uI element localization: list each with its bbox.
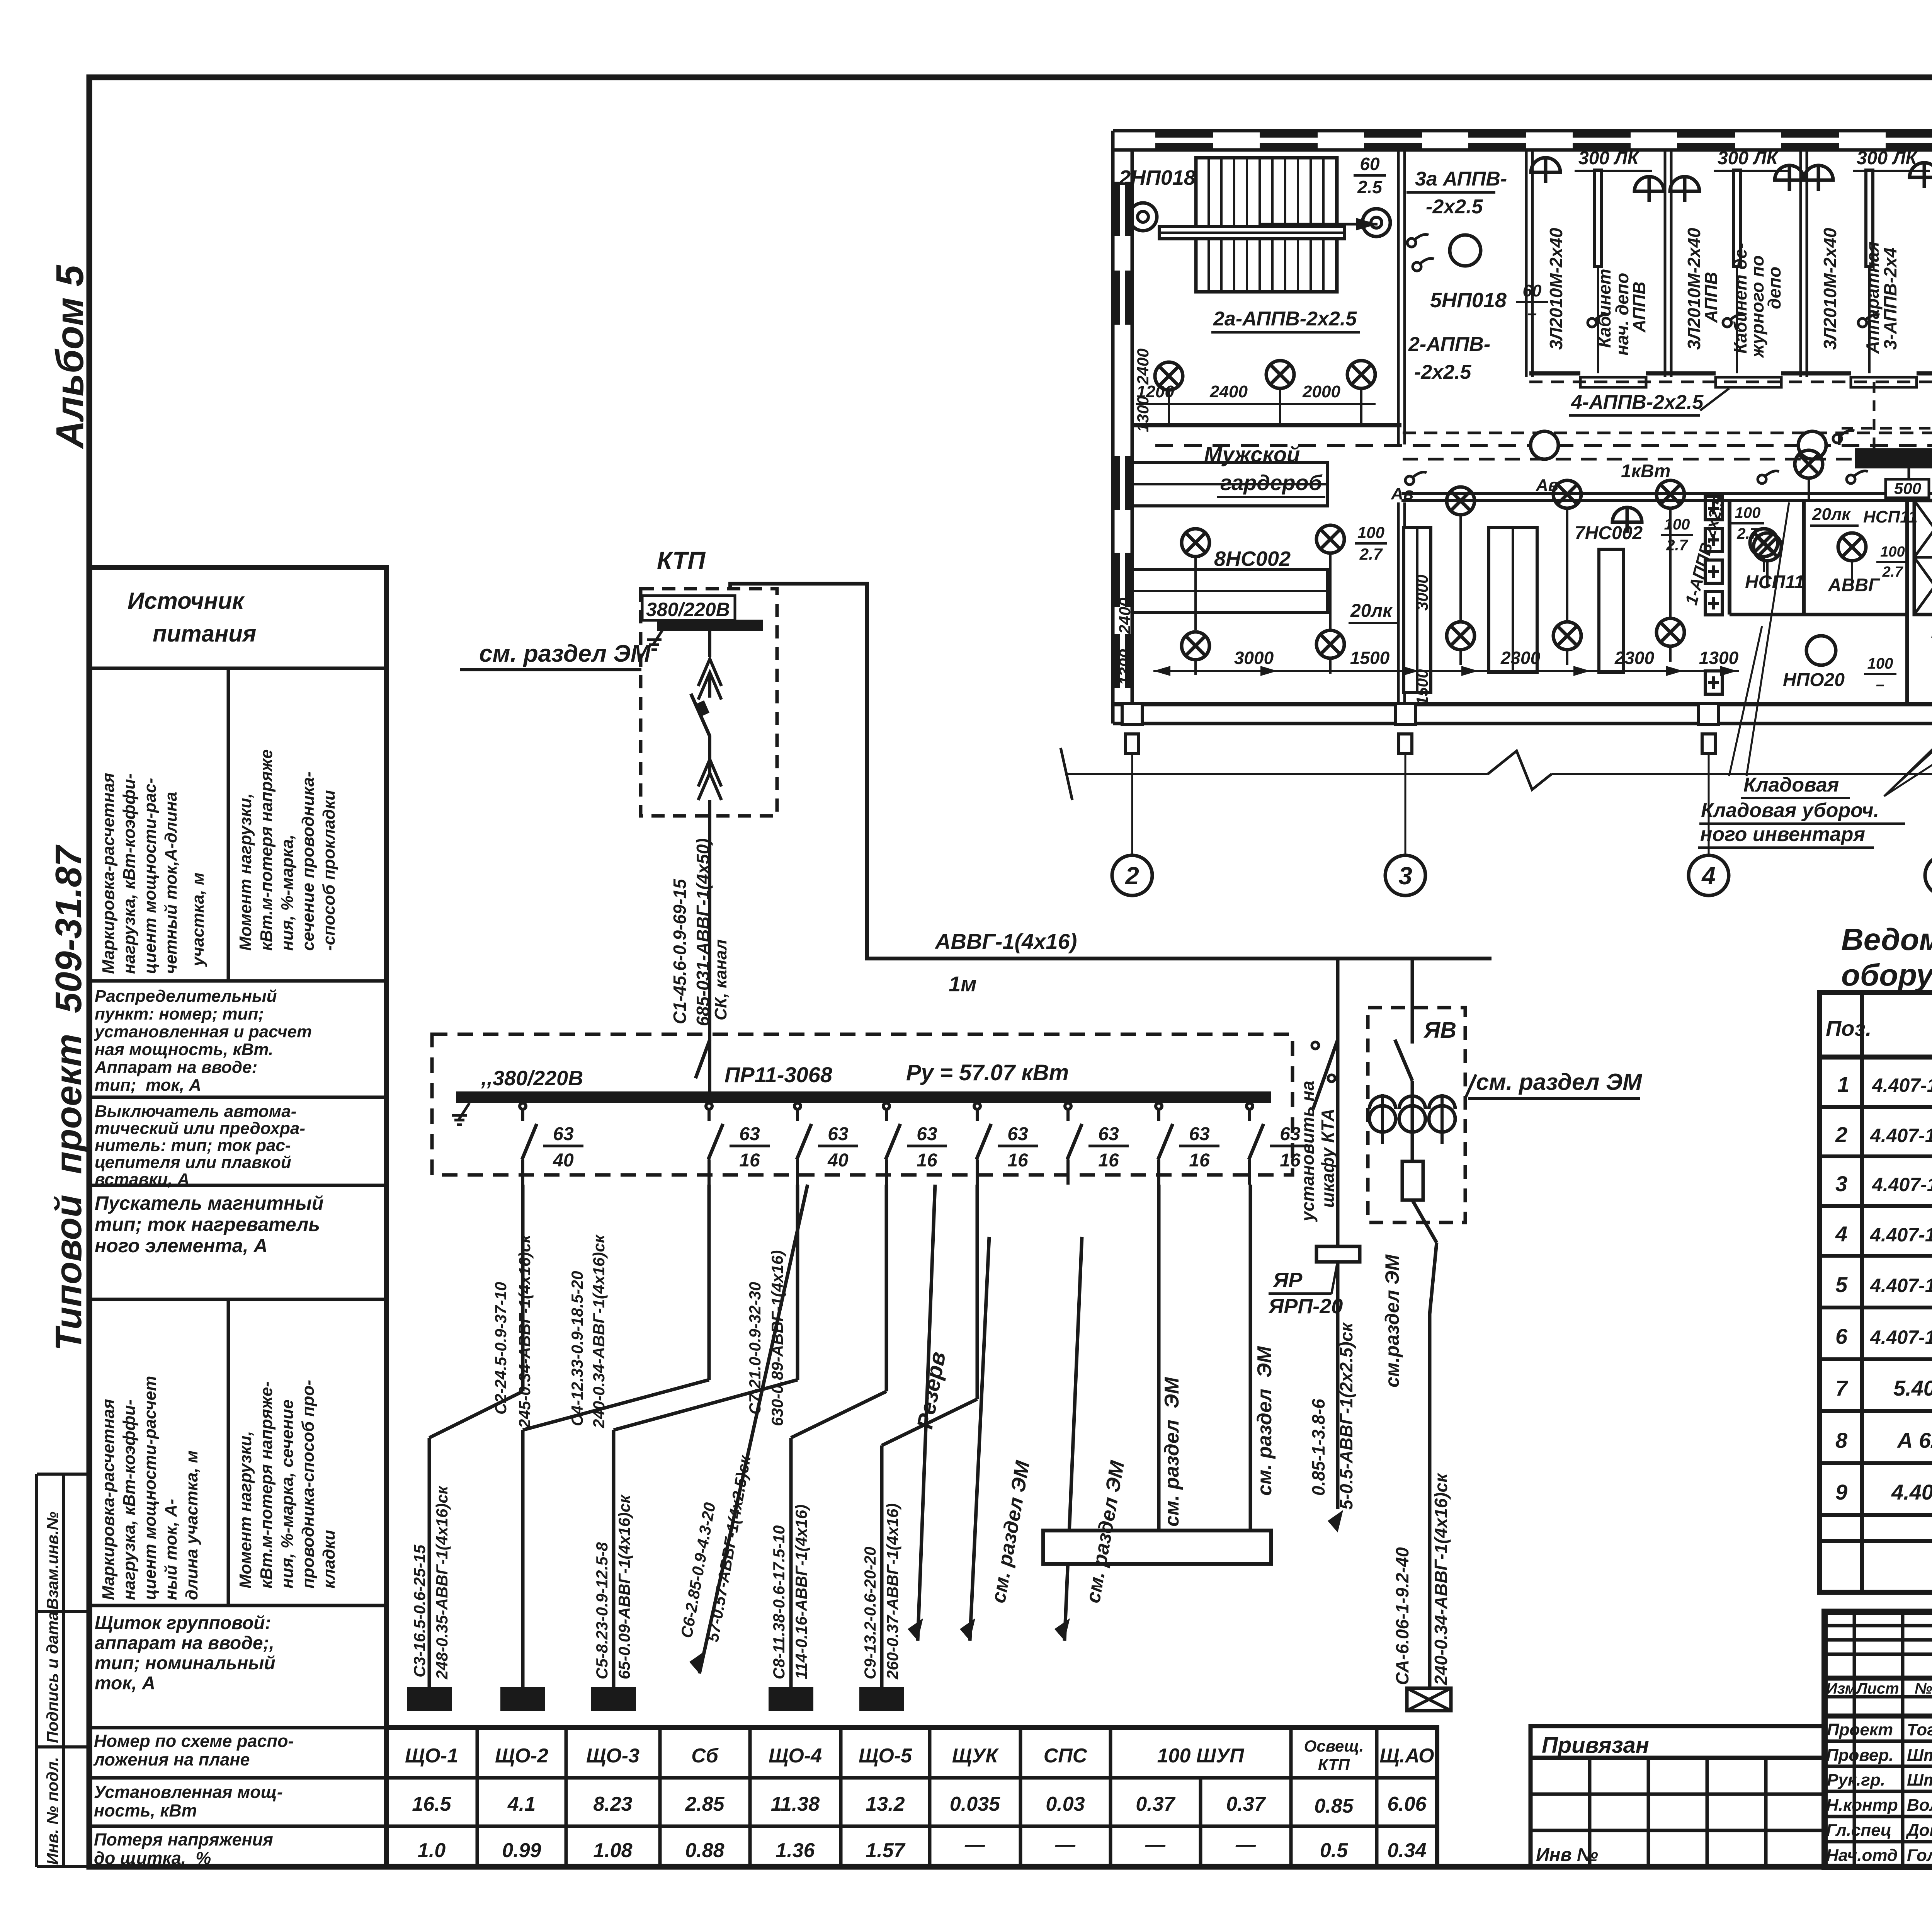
svg-text:Ав: Ав <box>1536 476 1558 495</box>
svg-text:Взам.инв.№: Взам.инв.№ <box>43 1512 61 1610</box>
group panel terminal (black box) x=1353 <box>500 1687 545 1711</box>
ground symbol <box>653 629 663 645</box>
feeder junction circle <box>1798 431 1826 459</box>
svg-text:13.2: 13.2 <box>866 1793 905 1815</box>
svg-text:Гл.спец: Гл.спец <box>1826 1821 1891 1840</box>
half lamp at 4000,446 <box>1531 158 1560 183</box>
svg-text:7НС002: 7НС002 <box>1575 523 1643 543</box>
svg-text:2300: 2300 <box>1500 648 1541 668</box>
svg-text:Нач.отд: Нач.отд <box>1826 1846 1898 1865</box>
svg-text:2.85: 2.85 <box>685 1793 724 1815</box>
svg-text:,,380/220В: ,,380/220В <box>481 1067 583 1090</box>
half lamp at 4360,495 <box>1670 177 1699 202</box>
svg-text:3: 3 <box>1835 1171 1847 1196</box>
feeder arrow EM2 <box>1065 1237 1082 1641</box>
svg-text:С5-8.23-0.9-12.5-8: С5-8.23-0.9-12.5-8 <box>593 1542 611 1679</box>
svg-text:Альбом 5: Альбом 5 <box>48 264 92 449</box>
svg-text:НПО20: НПО20 <box>1783 670 1845 690</box>
breaker 63/16 at x=2529 <box>974 1103 980 1109</box>
svg-text:9: 9 <box>1835 1480 1847 1504</box>
lamp at 4056,1279 <box>1553 480 1581 508</box>
svg-text:оборудования на плане располож: оборудования на плане расположения. <box>1841 958 1932 992</box>
svg-text:65-0.09-АВВГ-1(4х16)ск: 65-0.09-АВВГ-1(4х16)ск <box>615 1495 633 1679</box>
svg-text:4.1: 4.1 <box>507 1793 536 1815</box>
svg-text:20лк: 20лк <box>1812 505 1851 524</box>
svg-text:3: 3 <box>1398 862 1412 890</box>
svg-text:СК, канал: СК, канал <box>711 939 730 1020</box>
dimension line garderob <box>1153 670 1739 672</box>
svg-text:1300: 1300 <box>1699 648 1739 668</box>
svg-text:63: 63 <box>1189 1124 1210 1144</box>
svg-text:2НП018: 2НП018 <box>1119 166 1196 189</box>
breaker drops on main bus <box>520 1103 1310 1185</box>
lamp at 3780,1296 <box>1447 487 1475 515</box>
svg-text:—: — <box>1235 1834 1256 1856</box>
svg-text:Аппаратная: Аппаратная <box>1862 242 1883 354</box>
svg-text:Подпись и дата: Подпись и дата <box>43 1612 61 1743</box>
svg-text:Сб: Сб <box>691 1745 719 1767</box>
svg-text:НСП11: НСП11 <box>1863 507 1918 526</box>
svg-text:4: 4 <box>1701 862 1716 890</box>
svg-text:2.5: 2.5 <box>1357 177 1383 197</box>
svg-text:Освещ.: Освещ. <box>1304 1737 1364 1755</box>
svg-text:3Л2010М-2х40: 3Л2010М-2х40 <box>1546 228 1566 350</box>
breaker 63/16 at x=1835 <box>706 1103 712 1109</box>
svg-text:АВВГ-1(4х16): АВВГ-1(4х16) <box>934 929 1077 953</box>
svg-text:3а АППВ-: 3а АППВ- <box>1415 168 1507 190</box>
svg-text:63: 63 <box>917 1124 937 1144</box>
svg-text:300 ЛК: 300 ЛК <box>1857 148 1918 169</box>
breaker 63/16 at x=2999 <box>1156 1103 1162 1109</box>
lines to shared panel box <box>1157 1185 1161 1531</box>
lamp at 3443,1395 <box>1316 525 1344 553</box>
lamp at 4323,1636 <box>1656 618 1684 646</box>
switch at 4120,835 <box>1588 315 1609 327</box>
380/220V label box <box>642 596 735 620</box>
svg-text:6.06: 6.06 <box>1387 1793 1427 1815</box>
svg-text:1м: 1м <box>949 972 977 996</box>
heater box at 4435,1766 <box>1705 671 1722 694</box>
svg-text:16: 16 <box>1189 1150 1210 1171</box>
svg-text:А 625: А 625 <box>1896 1428 1932 1452</box>
fluorescent fixtures 3L2010M <box>1595 170 1602 267</box>
window fills top wall <box>1155 132 1213 138</box>
svg-text:60: 60 <box>1360 154 1380 174</box>
svg-text:Провер.: Провер. <box>1826 1746 1893 1765</box>
svg-text:Волкова: Волкова <box>1907 1796 1932 1815</box>
svg-text:см. раздел ЭМ: см. раздел ЭМ <box>1253 1346 1276 1496</box>
svg-text:СПС: СПС <box>1044 1745 1088 1767</box>
svg-text:Инв №: Инв № <box>1536 1845 1598 1865</box>
switch at 3667,690 <box>1413 259 1434 271</box>
svg-text:Изм: Изм <box>1826 1680 1856 1697</box>
fuse in YAV <box>1402 1161 1423 1200</box>
office bottom wall with door gaps <box>1529 371 1932 376</box>
wire branch from breaker x=2294 to panel x=2047 <box>885 1185 888 1391</box>
svg-text:—: — <box>1055 1834 1076 1856</box>
svg-text:380/220В: 380/220В <box>646 599 730 620</box>
feeder arrow EM1 <box>970 1237 989 1641</box>
svg-text:2.7: 2.7 <box>1359 545 1383 563</box>
current transformer coils <box>1369 1106 1396 1132</box>
svg-text:Инв. № подл.: Инв. № подл. <box>43 1757 61 1865</box>
ventilation shafts (crossed boxes) <box>1914 501 1932 615</box>
branch feeders below switchboard <box>407 1185 977 1711</box>
KTP busbar <box>659 621 761 629</box>
svg-text:4.407-174(А102.41 исп.1): 4.407-174(А102.41 исп.1) <box>1870 1224 1932 1246</box>
wire branch from breaker x=2064 to panel x=1588 <box>796 1185 799 1380</box>
wire branch from breaker x=2529 to panel x=2282 <box>976 1185 979 1399</box>
bus ground <box>458 1103 469 1121</box>
svg-text:ЯВ: ЯВ <box>1423 1018 1456 1043</box>
svg-text:1кВт: 1кВт <box>1621 461 1670 482</box>
svg-text:Домбровский: Домбровский <box>1905 1821 1932 1840</box>
YARP-20 fuse circuit <box>1336 958 1340 1246</box>
svg-text:Источник: Источник <box>128 588 245 614</box>
svg-text:16: 16 <box>1098 1150 1119 1171</box>
svg-text:100: 100 <box>1880 544 1905 560</box>
shared panel (white box) <box>1043 1531 1271 1564</box>
building outer wall left <box>1111 131 1115 724</box>
svg-text:см. раздел ЭМ: см. раздел ЭМ <box>479 640 651 667</box>
svg-text:ЩО-4: ЩО-4 <box>769 1745 822 1767</box>
svg-text:–: – <box>1876 676 1884 693</box>
svg-text:СА-6.06-1-9.2-40: СА-6.06-1-9.2-40 <box>1392 1547 1412 1685</box>
half lamp at 4211,1351 <box>1612 507 1642 533</box>
lamp at 3780,1645 <box>1447 622 1475 650</box>
group panel terminal (black box) x=1588 <box>591 1687 636 1711</box>
svg-text:2: 2 <box>1835 1122 1847 1147</box>
svg-text:АППВ: АППВ <box>1701 272 1721 323</box>
KTP transformer cabinet (dashed) <box>641 546 777 1098</box>
svg-text:Голодник: Голодник <box>1907 1846 1932 1865</box>
svg-text:2400: 2400 <box>1134 349 1152 385</box>
svg-text:4.407-174(А102.58 исп.5): 4.407-174(А102.58 исп.5) <box>1872 1074 1932 1096</box>
svg-text:ного инвентаря: ного инвентаря <box>1700 823 1865 846</box>
svg-text:депо: депо <box>1764 267 1784 309</box>
svg-text:2.7: 2.7 <box>1666 537 1688 554</box>
svg-text:АППВ: АППВ <box>1629 282 1649 333</box>
svg-text:0.34: 0.34 <box>1387 1839 1426 1862</box>
svg-text:Проект: Проект <box>1827 1720 1893 1739</box>
svg-text:3000: 3000 <box>1234 648 1274 668</box>
svg-text:16: 16 <box>917 1150 937 1171</box>
disconnector chevrons <box>698 659 721 686</box>
half lamp at 4706,466 <box>1804 165 1833 191</box>
svg-text:300 ЛК: 300 ЛК <box>1718 148 1779 169</box>
bottom band partitions <box>1728 501 1731 615</box>
switch at 4560,1240 <box>1758 471 1779 484</box>
svg-text:16: 16 <box>739 1150 760 1171</box>
panel ShchO-3 (black box) <box>1855 448 1932 468</box>
svg-text:питания: питания <box>153 621 256 647</box>
svg-text:Ав: Ав <box>1391 484 1413 503</box>
wire branch from breaker x=1835 to panel x=1353 <box>707 1185 711 1380</box>
door sills <box>1580 377 1646 387</box>
blade with flag <box>691 694 710 736</box>
svg-text:№ докум: № докум <box>1915 1680 1932 1697</box>
svg-text:2.7: 2.7 <box>1882 564 1904 580</box>
svg-text:гардероб: гардероб <box>1220 470 1323 495</box>
svg-text:—: — <box>964 1834 985 1856</box>
svg-text:Тогер: Тогер <box>1907 1720 1932 1739</box>
svg-text:20лк: 20лк <box>1350 601 1393 621</box>
lamp at 4323,1279 <box>1656 480 1684 508</box>
svg-text:Н.контр: Н.контр <box>1826 1796 1898 1815</box>
heater box at 4435,1479 <box>1705 560 1722 583</box>
svg-text:Щ.АО: Щ.АО <box>1379 1745 1434 1767</box>
svg-text:2: 2 <box>1125 862 1139 890</box>
svg-text:1: 1 <box>1837 1072 1849 1096</box>
svg-text:0.5: 0.5 <box>1320 1839 1348 1862</box>
svg-text:4: 4 <box>1835 1222 1847 1246</box>
breaker 63/16 at x=3234 <box>1247 1103 1253 1109</box>
heater box at 4435,1397 <box>1705 528 1722 552</box>
svg-text:шкафу КТА: шкафу КТА <box>1318 1108 1338 1208</box>
svg-text:Мужской: Мужской <box>1204 442 1300 466</box>
feeder drop from KTP bus <box>708 629 711 657</box>
svg-text:500: 500 <box>1894 479 1921 497</box>
svg-text:0.99: 0.99 <box>502 1839 541 1862</box>
svg-text:2300: 2300 <box>1614 648 1655 668</box>
svg-text:63: 63 <box>553 1124 574 1144</box>
svg-text:40: 40 <box>827 1150 849 1171</box>
half lamp at 4268,495 <box>1634 177 1664 202</box>
svg-text:40: 40 <box>553 1150 574 1171</box>
svg-text:Ведомость узлов установки элек: Ведомость узлов установки электрического <box>1841 922 1932 957</box>
AVVG-1(4x16) feeder wire from KTP to YAV <box>730 584 1492 958</box>
svg-text:ЩО-1: ЩО-1 <box>405 1745 458 1767</box>
svg-text:4.407-233: 4.407-233 <box>1891 1480 1932 1504</box>
svg-text:248-0.35-АВВГ-1(4x16)ск: 248-0.35-АВВГ-1(4x16)ск <box>433 1485 451 1680</box>
corridor feeder (dashed) <box>1155 444 1932 447</box>
svg-text:260-0.37-АВВГ-1(4х16): 260-0.37-АВВГ-1(4х16) <box>883 1503 901 1680</box>
svg-text:63: 63 <box>1098 1124 1119 1144</box>
svg-text:Штопельман: Штопельман <box>1907 1771 1932 1789</box>
svg-text:0.85: 0.85 <box>1314 1795 1354 1817</box>
stairwell <box>1196 158 1337 292</box>
main busbar PR11-3068 <box>456 1091 1271 1103</box>
wire branch from breaker x=1353 to panel x=1111 <box>521 1185 525 1391</box>
breaker 63/40 at x=1353 <box>520 1103 526 1109</box>
half lamp at 4980,459 <box>1910 163 1932 188</box>
garderob top wall <box>1132 423 1401 427</box>
svg-text:Лист: Лист <box>1855 1680 1899 1697</box>
svg-text:ЩУК: ЩУК <box>952 1745 999 1767</box>
fuse YARP-20 (white rect) <box>1316 1246 1360 1262</box>
svg-text:см. раздел ЭМ: см. раздел ЭМ <box>1476 1069 1643 1095</box>
svg-text:1300: 1300 <box>1116 649 1134 685</box>
svg-text:АВВГ: АВВГ <box>1828 575 1881 596</box>
svg-text:4-АППВ-2х2.5: 4-АППВ-2х2.5 <box>1571 391 1704 414</box>
axis 3 marker <box>1395 703 1415 724</box>
lamp NPO20 circles <box>1450 235 1481 266</box>
YAV box (dashed) <box>1368 1008 1465 1222</box>
svg-text:1.0: 1.0 <box>418 1839 446 1862</box>
incoming switch blade at box top <box>696 1040 710 1078</box>
consumer terminal (bowtie) <box>1407 1688 1451 1711</box>
office partitions <box>1526 151 1932 377</box>
lamp at 4565,1404 <box>1750 529 1778 557</box>
wall lamp NBO at 2958,561 <box>1129 203 1157 231</box>
svg-text:2.7: 2.7 <box>1736 525 1759 542</box>
svg-text:-2х2.5: -2х2.5 <box>1426 196 1483 218</box>
ground line <box>1067 773 1488 775</box>
svg-text:0.03: 0.03 <box>1046 1793 1085 1815</box>
feeder junction circle <box>1531 431 1558 459</box>
svg-text:2а-АППВ-2х2.5: 2а-АППВ-2х2.5 <box>1213 308 1357 330</box>
feeder arrow rezerv <box>918 1185 935 1641</box>
svg-text:3000: 3000 <box>1413 575 1431 611</box>
svg-text:4.407-174(А102.68 исп.1): 4.407-174(А102.68 исп.1) <box>1870 1326 1932 1348</box>
svg-text:240-0.34-АВВГ-1(4х16)ск: 240-0.34-АВВГ-1(4х16)ск <box>1431 1473 1451 1685</box>
corridor bottom wall <box>1401 492 1932 495</box>
dimension line top-left room <box>1136 403 1376 405</box>
half lamp at 4631,466 <box>1775 165 1804 191</box>
partition garderob right <box>1398 151 1405 444</box>
lamp at 4793,1415 <box>1838 533 1866 561</box>
svg-text:ЩО-3: ЩО-3 <box>586 1745 639 1767</box>
wardrobe benches <box>1132 463 1327 506</box>
svg-text:5НП018: 5НП018 <box>1430 289 1507 312</box>
lamp at 3094,1671 <box>1182 632 1209 660</box>
svg-text:С2-24.5-0.9-37-10: С2-24.5-0.9-37-10 <box>492 1282 510 1415</box>
svg-text:С1-45.6-0.9-69-15: С1-45.6-0.9-69-15 <box>670 878 690 1024</box>
group panel terminal (black box) x=2047 <box>769 1687 813 1711</box>
svg-text:см.раздел ЭМ: см.раздел ЭМ <box>1381 1254 1403 1388</box>
svg-text:16.5: 16.5 <box>412 1793 451 1815</box>
svg-text:1.36: 1.36 <box>776 1839 815 1862</box>
wall lamp NBO at 3562,576 <box>1362 209 1390 237</box>
building outer wall top <box>1113 129 1932 133</box>
group panel terminal (black box) x=2282 <box>859 1687 904 1711</box>
lamp at 4574,1415 <box>1753 533 1781 561</box>
svg-text:0.37: 0.37 <box>1226 1793 1266 1815</box>
svg-text:1500: 1500 <box>1350 648 1390 668</box>
svg-text:С8-11.38-0.6-17.5-10: С8-11.38-0.6-17.5-10 <box>770 1525 788 1679</box>
svg-text:см. раздел ЭМ: см. раздел ЭМ <box>1161 1377 1183 1527</box>
svg-text:Поз.: Поз. <box>1826 1016 1872 1040</box>
lamp at 4056,1645 <box>1553 622 1581 650</box>
svg-text:С9-13.2-0.6-20-20: С9-13.2-0.6-20-20 <box>861 1547 879 1679</box>
svg-text:–: – <box>1527 304 1537 323</box>
lamp at 3523,969 <box>1347 361 1375 388</box>
svg-text:100 ШУП: 100 ШУП <box>1157 1745 1245 1767</box>
svg-text:100: 100 <box>1735 504 1761 521</box>
axis 4 marker <box>1699 703 1719 724</box>
svg-text:8НС002: 8НС002 <box>1214 547 1291 570</box>
lamp at 3443,1667 <box>1316 630 1344 658</box>
svg-text:0.88: 0.88 <box>685 1839 724 1862</box>
svg-text:5.407-19: 5.407-19 <box>1893 1376 1932 1400</box>
heater box at 4435,1315 <box>1705 497 1722 520</box>
svg-text:5-0.5-АВВГ-1(2х2.5)ск: 5-0.5-АВВГ-1(2х2.5)ск <box>1336 1322 1356 1510</box>
svg-text:С3-16.5-0.6-25-15: С3-16.5-0.6-25-15 <box>410 1544 429 1677</box>
svg-text:63: 63 <box>828 1124 849 1144</box>
lamp at 3025,973 <box>1155 362 1183 390</box>
svg-text:0.37: 0.37 <box>1136 1793 1175 1815</box>
breaker 63/16 at x=2764 <box>1065 1103 1071 1109</box>
svg-text:8: 8 <box>1835 1428 1848 1452</box>
svg-text:60: 60 <box>1523 281 1542 300</box>
svg-text:63: 63 <box>1007 1124 1028 1144</box>
breaker 63/40 at x=2064 <box>794 1103 801 1109</box>
svg-text:Рук.гр.: Рук.гр. <box>1827 1771 1885 1789</box>
svg-text:11.38: 11.38 <box>771 1793 820 1815</box>
heater box at 4435,1561 <box>1705 592 1722 615</box>
axis 2 marker <box>1122 703 1142 724</box>
building outer wall bottom <box>1113 702 1932 707</box>
svg-text:С4-12.33-0.9-18.5-20: С4-12.33-0.9-18.5-20 <box>568 1271 586 1426</box>
switch at 4820,835 <box>1858 315 1879 327</box>
svg-text:Кладовая убороч.: Кладовая убороч. <box>1701 799 1879 822</box>
svg-text:Штопельман: Штопельман <box>1907 1746 1932 1765</box>
svg-text:2400: 2400 <box>1116 598 1134 634</box>
svg-text:ПР11-3068: ПР11-3068 <box>724 1062 833 1087</box>
svg-text:Кладовая: Кладовая <box>1743 774 1839 796</box>
svg-text:ЩО-5: ЩО-5 <box>859 1745 912 1767</box>
svg-text:ЯРП-20: ЯРП-20 <box>1268 1295 1343 1318</box>
svg-text:0.035: 0.035 <box>950 1793 1000 1815</box>
svg-text:300 ЛК: 300 ЛК <box>1578 148 1640 169</box>
switch at 3653,628 <box>1407 235 1429 247</box>
switch at 3648,1243 <box>1405 472 1427 485</box>
svg-text:3-АППВ-2х4: 3-АППВ-2х4 <box>1880 248 1900 350</box>
svg-text:0.85-1-3.8-6: 0.85-1-3.8-6 <box>1308 1399 1328 1496</box>
svg-text:2-АППВ-: 2-АППВ- <box>1408 333 1490 356</box>
svg-text:1.57: 1.57 <box>866 1839 905 1862</box>
svg-text:100: 100 <box>1664 516 1690 533</box>
svg-text:114-0.16-АВВГ-1(4x16): 114-0.16-АВВГ-1(4x16) <box>792 1505 810 1679</box>
inv strip boxes <box>35 1474 38 1867</box>
lamp at 3094,1404 <box>1182 529 1209 557</box>
svg-text:Ру = 57.07 кВт: Ру = 57.07 кВт <box>906 1060 1069 1085</box>
svg-text:4.407-174(А102.35): 4.407-174(А102.35) <box>1872 1174 1932 1195</box>
svg-text:4.407-174(А102.48 исп.1): 4.407-174(А102.48 исп.1) <box>1870 1275 1932 1296</box>
svg-text:8.23: 8.23 <box>593 1793 632 1815</box>
svg-text:240-0.34-АВВГ-1(4х16)ск: 240-0.34-АВВГ-1(4х16)ск <box>590 1234 608 1428</box>
svg-text:7: 7 <box>1835 1376 1849 1400</box>
switch at 4755,1135 <box>1833 431 1854 443</box>
breaker 63/16 at x=2294 <box>883 1103 889 1109</box>
svg-text:2400: 2400 <box>1209 382 1248 401</box>
svg-text:3Л2010М-2х40: 3Л2010М-2х40 <box>1820 228 1840 350</box>
svg-text:100: 100 <box>1867 655 1893 672</box>
svg-text:63: 63 <box>739 1124 760 1144</box>
svg-text:ЩО-2: ЩО-2 <box>495 1745 548 1767</box>
main switchboard dashed enclosure <box>432 1034 1293 1175</box>
switch at 4470,835 <box>1723 315 1744 327</box>
switch at 4790,1240 <box>1847 471 1868 484</box>
window fills left wall <box>1114 182 1120 236</box>
svg-text:ЯР: ЯР <box>1272 1268 1303 1292</box>
svg-text:КТП: КТП <box>657 546 706 574</box>
svg-text:1.08: 1.08 <box>593 1839 632 1862</box>
svg-text:Привязан: Привязан <box>1542 1733 1649 1758</box>
svg-text:-2х2.5: -2х2.5 <box>1414 361 1472 383</box>
feeder arrow Sb <box>699 1185 808 1674</box>
svg-text:685-031-АВВГ-1(4х50): 685-031-АВВГ-1(4х50) <box>693 838 713 1026</box>
svg-text:1500: 1500 <box>1413 669 1431 705</box>
svg-text:Типовой проект 509-31.87: Типовой проект 509-31.87 <box>48 844 89 1351</box>
room wiring <box>1196 508 1670 630</box>
svg-text:5: 5 <box>1835 1272 1848 1297</box>
svg-text:16: 16 <box>1007 1150 1028 1171</box>
svg-text:245-0.34-АВВГ-1(4х16)ск: 245-0.34-АВВГ-1(4х16)ск <box>515 1234 534 1428</box>
svg-text:КТП: КТП <box>1318 1755 1350 1774</box>
lamp at 3313,969 <box>1266 361 1294 388</box>
svg-text:6: 6 <box>1835 1324 1848 1348</box>
